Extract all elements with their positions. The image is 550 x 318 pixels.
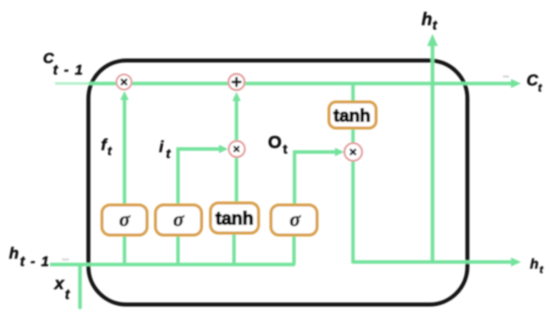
svg-text:tanh: tanh [334, 106, 371, 126]
wire: input multiply up to plus circle [235, 97, 238, 140]
label O_t [268, 132, 288, 157]
cell body rounded rectangle [88, 61, 467, 305]
tanh box (candidate) [211, 203, 259, 233]
label x_t [54, 274, 71, 302]
svg-text:t: t [166, 146, 171, 161]
svg-text:x: x [54, 274, 66, 293]
svg-text:h: h [9, 246, 19, 263]
wire: output gate vertical below sigma box 3 [292, 235, 295, 265]
wire: output tanh box down to output multiply [351, 128, 354, 144]
svg-text:C: C [527, 73, 539, 90]
sigma box 2 (input gate) [156, 205, 202, 235]
svg-text:tanh: tanh [216, 209, 254, 229]
multiply gate circle (input) [229, 141, 245, 157]
faint artifact dash near h_t-1 [62, 259, 69, 261]
label C_t-1 [43, 50, 84, 78]
svg-text:i: i [159, 139, 164, 156]
label C_t (right output) [527, 73, 544, 95]
arrowhead h_t right output [511, 258, 521, 267]
multiply gate circle (output) [344, 143, 362, 161]
svg-text:t: t [283, 142, 288, 157]
label h_t (top output) [422, 9, 438, 33]
wire: cell state line C entering (pale segment) [55, 82, 91, 85]
wire: forget gate vertical up to multiply circle [123, 96, 126, 205]
arrowhead C_t output [511, 79, 521, 88]
wire: input gate vertical below sigma box 2 [176, 235, 179, 265]
wire: h_t vertical up through cell to top [431, 42, 435, 263]
svg-text:σ: σ [290, 209, 302, 231]
svg-text:h: h [530, 256, 539, 272]
arrowhead into forget multiply [120, 91, 128, 100]
svg-text:t: t [433, 18, 438, 33]
svg-text:t: t [538, 83, 543, 95]
label h_t (right output) [530, 256, 544, 277]
svg-text:σ: σ [119, 209, 131, 231]
svg-text:t: t [65, 287, 70, 302]
svg-text:t - 1: t - 1 [20, 253, 50, 269]
faint artifact dash near C_t [503, 76, 509, 78]
wire: h_{t-1} input line (horizontal, y=264.5) [50, 263, 295, 267]
plus gate circle [229, 74, 245, 90]
wire: output multiply down to output line [351, 160, 354, 264]
svg-text:t: t [108, 144, 113, 158]
svg-text:t - 1: t - 1 [53, 62, 84, 78]
svg-text:O: O [268, 132, 282, 152]
wire: x_t input vertical [78, 263, 82, 309]
wire: output gate path up then right to output multiply [295, 152, 338, 205]
label f_t [101, 137, 113, 158]
svg-text:h: h [422, 9, 433, 29]
arrowhead h_t top output [427, 34, 438, 46]
svg-text:σ: σ [173, 209, 185, 231]
multiply gate circle (forget) [117, 75, 132, 90]
wire: candidate tanh box up to input multiply circle [235, 158, 238, 203]
arrowhead into input multiply [219, 145, 228, 153]
sigma box 1 (forget gate) [102, 205, 147, 235]
svg-text:t: t [540, 264, 544, 276]
wire: cell state line C (horizontal, y=83) [89, 82, 514, 86]
sigma box 3 (output gate) [271, 205, 317, 235]
wire: forget gate vertical below sigma box 1 [123, 235, 126, 265]
arrowhead into plus circle [232, 92, 240, 101]
arrowhead into output multiply [335, 148, 344, 156]
wire: input gate path up then right to multiply circle [178, 149, 221, 205]
wire: candidate tanh below box [232, 233, 235, 265]
tanh box (output activation) [329, 102, 376, 128]
label i_t [159, 139, 171, 161]
wire: C line down into output tanh box [351, 83, 354, 102]
label h_t-1 [9, 246, 50, 270]
wire: h_t output horizontal [353, 260, 514, 264]
